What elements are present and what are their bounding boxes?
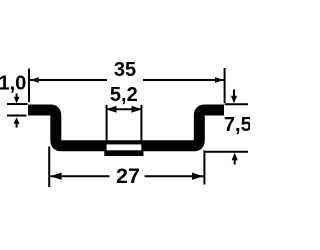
svg-text:27: 27 — [116, 164, 140, 188]
svg-text:5,2: 5,2 — [110, 84, 138, 106]
svg-text:7,5: 7,5 — [224, 114, 250, 136]
svg-text:1,0: 1,0 — [0, 73, 26, 95]
svg-text:35: 35 — [114, 59, 136, 81]
